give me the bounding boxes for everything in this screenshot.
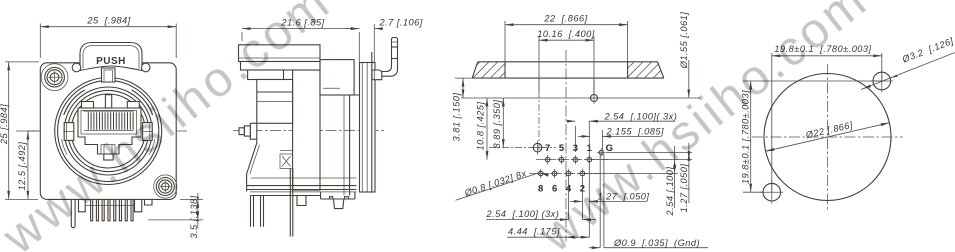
svg-text:22 [.866]: 22 [.866]: [543, 13, 587, 23]
svg-text:Ø3.2 [.126]: Ø3.2 [.126]: [900, 36, 955, 65]
svg-text:8.89 [.350]: 8.89 [.350]: [492, 100, 502, 149]
svg-text:25 [.984]: 25 [.984]: [0, 104, 9, 145]
svg-text:2.7 [.106]: 2.7 [.106]: [379, 17, 423, 27]
svg-text:6: 6: [552, 184, 557, 195]
svg-text:Ø0.9 [.035] (Gnd): Ø0.9 [.035] (Gnd): [613, 238, 700, 248]
svg-text:8: 8: [538, 184, 543, 195]
svg-text:3.81 [.150]: 3.81 [.150]: [452, 93, 462, 142]
svg-text:10.8 [.425]: 10.8 [.425]: [476, 102, 486, 151]
svg-text:25 [.984]: 25 [.984]: [86, 16, 130, 26]
svg-text:10.16 [.400]: 10.16 [.400]: [537, 29, 595, 39]
svg-text:Ø1.55 [.061]: Ø1.55 [.061]: [679, 12, 689, 70]
svg-text:3.5 [.138]: 3.5 [.138]: [189, 195, 199, 238]
svg-text:Ø0.8 [.032] 8x: Ø0.8 [.032] 8x: [462, 168, 527, 198]
svg-text:Ø22 [.866]: Ø22 [.866]: [804, 120, 854, 141]
svg-text:5: 5: [559, 143, 565, 154]
svg-text:PUSH: PUSH: [96, 56, 126, 67]
svg-text:12.5 [.492]: 12.5 [.492]: [17, 142, 27, 191]
svg-text:1.27 [.050]: 1.27 [.050]: [679, 164, 689, 213]
svg-text:7: 7: [545, 143, 550, 154]
